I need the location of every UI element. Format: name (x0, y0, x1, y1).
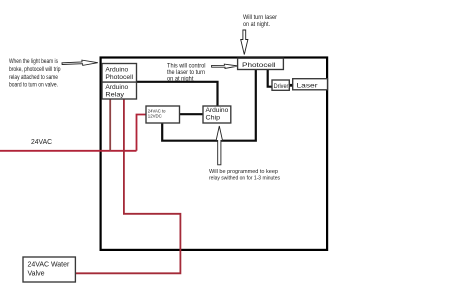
svg-text:on at night.: on at night. (243, 21, 270, 28)
box: Driver (272, 80, 289, 90)
box: Laser (293, 79, 328, 90)
svg-text:Valve: Valve (28, 271, 45, 278)
box: Arduino Chip U3 (203, 106, 231, 123)
svg-text:When the light beam is: When the light beam is (9, 58, 58, 65)
wire: 12VDC supply to photocell (162, 70, 256, 141)
main board rectangle (101, 58, 328, 250)
svg-text:Will be programmed to keep: Will be programmed to keep (209, 169, 279, 175)
svg-text:Chip: Chip (206, 114, 221, 121)
svg-text:Photocell: Photocell (105, 74, 133, 81)
svg-text:Relay: Relay (105, 91, 124, 98)
svg-text:Driver: Driver (274, 83, 289, 90)
arrow: left annotation pointing right to board (62, 60, 98, 65)
arrow: down arrow to Photocell (241, 30, 248, 55)
svg-text:Arduino: Arduino (105, 84, 128, 91)
wire: converter to arduino chip (180, 113, 204, 115)
box: 24VAC to 12VDC converter (146, 106, 180, 123)
svg-text:Arduino: Arduino (105, 67, 128, 74)
svg-text:relay attached to same: relay attached to same (9, 74, 58, 81)
annotation: when light beam broke (9, 58, 61, 88)
svg-text:12VDC: 12VDC (148, 114, 163, 119)
box: Arduino Photocell U1 (102, 64, 137, 83)
svg-text:relay swithed on for 1-3 minut: relay swithed on for 1-3 minutes (209, 176, 280, 182)
wire: driver to laser connector (289, 84, 293, 87)
annotation: this will control the laser (167, 63, 206, 83)
wire: red relay drop 1 (109, 99, 111, 151)
arrow: small right arrow to Photocell (212, 64, 239, 68)
box: Photocell sensor (238, 58, 284, 69)
svg-text:broke, photocell will trip: broke, photocell will trip (9, 66, 61, 73)
wire: red 24VAC riser into converter (137, 115, 147, 151)
wire: red 24VAC feed horizontal (0, 150, 137, 152)
wire: photocell down to driver (268, 70, 272, 87)
box: 24VAC Water Valve (23, 257, 75, 282)
svg-text:24VAC: 24VAC (31, 139, 52, 146)
wire: red relay to water valve (75, 99, 180, 273)
svg-text:24VAC Water: 24VAC Water (28, 261, 70, 268)
svg-text:Laser: Laser (297, 83, 319, 90)
svg-text:Will turn laser: Will turn laser (243, 14, 277, 21)
annotation: will turn laser on at night (243, 14, 277, 28)
arrow: up arrow to Arduino Chip (216, 126, 222, 165)
box: Arduino Relay U2 (102, 82, 137, 99)
svg-text:board to turn on valve.: board to turn on valve. (9, 82, 58, 89)
annotation: will be programmed to keep relay (209, 169, 280, 182)
svg-text:Photocell: Photocell (242, 62, 276, 69)
svg-text:Arduino: Arduino (206, 107, 229, 114)
wire: photocell/relay boards to arduino chip (137, 82, 218, 106)
